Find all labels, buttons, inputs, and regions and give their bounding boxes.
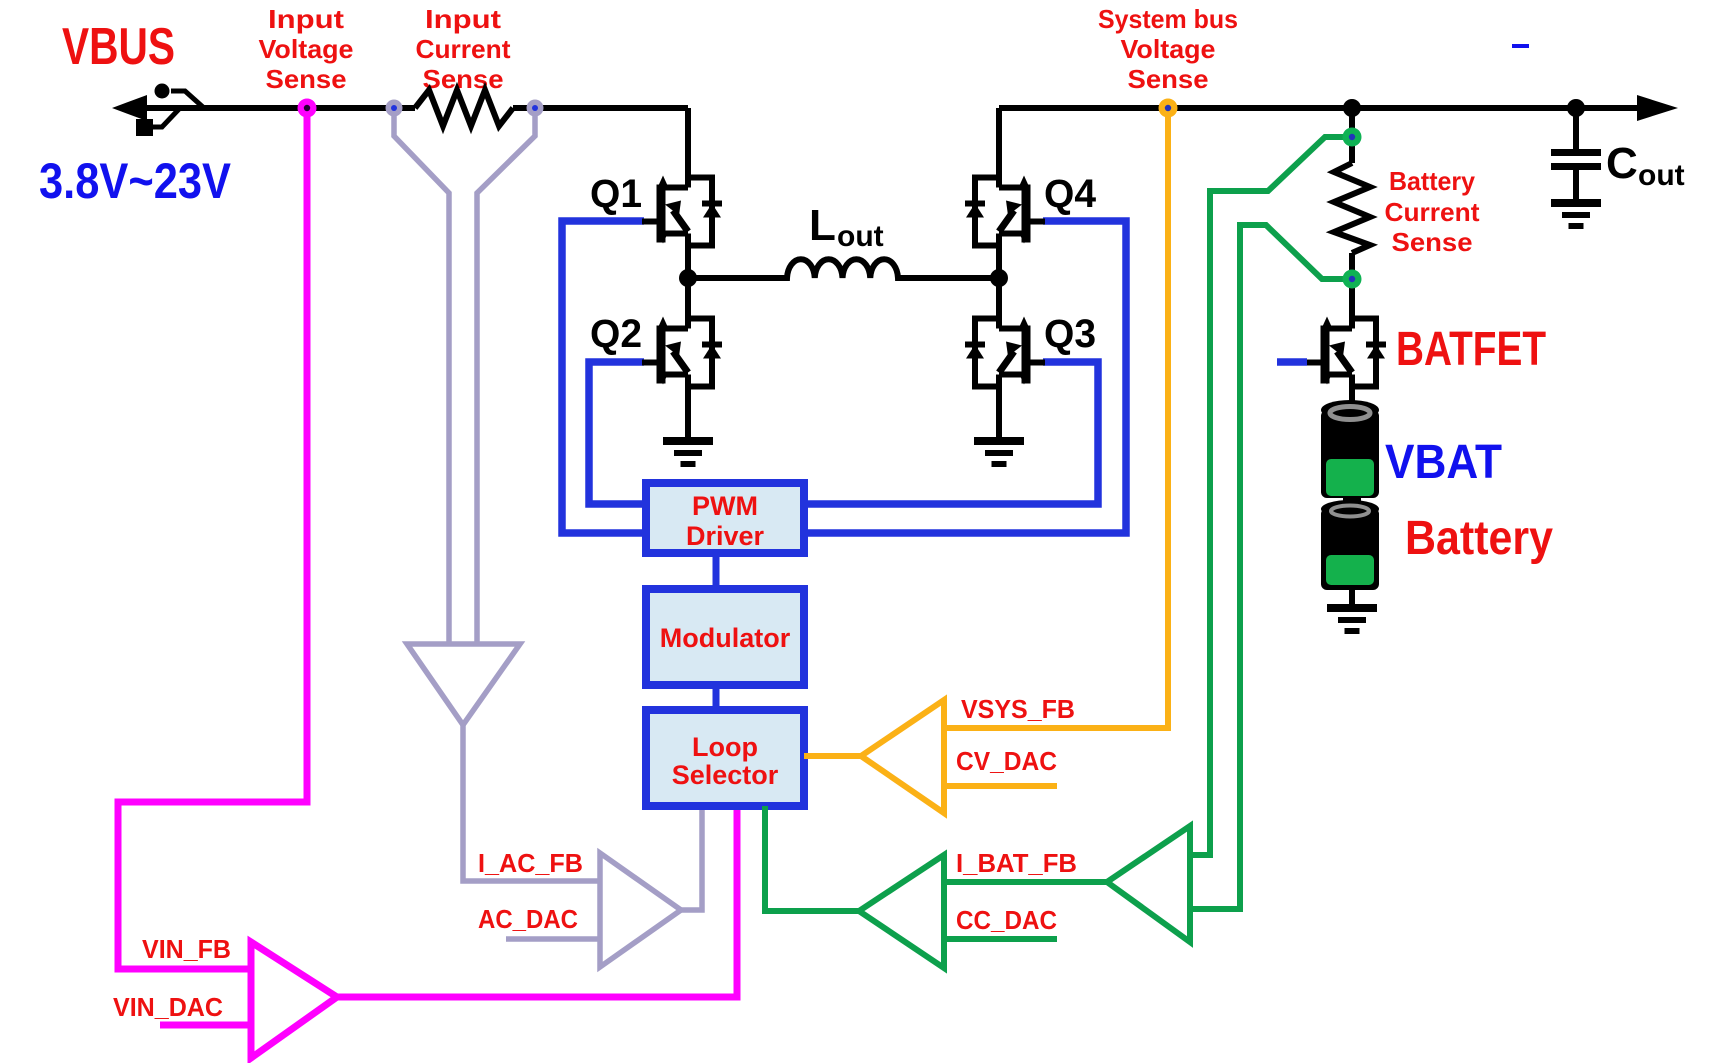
node: system bus sense (orange) bbox=[1159, 99, 1178, 118]
node: right switch node bbox=[990, 269, 1008, 287]
svg-text:VSYS_FB: VSYS_FB bbox=[961, 694, 1075, 724]
wire: Q4 drain from rail bbox=[996, 108, 1002, 173]
svg-text:I_BAT_FB: I_BAT_FB bbox=[956, 848, 1077, 878]
wire: gray amp2 output to Loop Selector bbox=[681, 806, 702, 910]
node: battery branch junction bbox=[1343, 99, 1361, 117]
svg-text:Battery: Battery bbox=[1405, 512, 1553, 565]
ground below Q3 bbox=[974, 437, 1024, 467]
svg-text:Sense: Sense bbox=[1128, 64, 1209, 94]
svg-text:L: L bbox=[809, 201, 836, 250]
svg-text:BATFET: BATFET bbox=[1396, 323, 1546, 376]
wire: battery branch from rail bbox=[1349, 108, 1355, 163]
wire: blue BATFET gate stub bbox=[1277, 358, 1307, 366]
wire: magenta VIN amp output to Loop Selector bbox=[337, 806, 737, 997]
wire: PWM Driver to Modulator bbox=[713, 553, 720, 590]
wire: AC_DAC input stub bbox=[506, 936, 600, 942]
wire: sense resistor to BATFET bbox=[1349, 253, 1355, 314]
ground below Q2 bbox=[663, 437, 713, 467]
wire: switch node to Q2 drain bbox=[685, 278, 691, 314]
wire: switch node to Q3 drain bbox=[996, 278, 1002, 314]
node: input voltage sense (magenta) bbox=[298, 99, 317, 118]
op-amp VIN (magenta) bbox=[251, 942, 337, 1058]
wire: gray current sense right lead bbox=[477, 114, 535, 644]
svg-text:C: C bbox=[1606, 139, 1638, 188]
node: Cout junction bbox=[1567, 99, 1585, 117]
box Modulator bbox=[646, 589, 804, 685]
battery cell 2 bbox=[1321, 496, 1379, 590]
transistor Q1 bbox=[642, 173, 722, 251]
USB connector icon bbox=[153, 91, 204, 127]
wire: magenta input voltage sense to VIN amp bbox=[118, 114, 307, 969]
svg-text:VIN_DAC: VIN_DAC bbox=[113, 992, 223, 1022]
svg-text:out: out bbox=[837, 220, 884, 253]
box PWM Driver bbox=[646, 483, 804, 553]
wire: Modulator to Loop Selector bbox=[713, 685, 720, 712]
wire: blue Q2 gate to PWM driver bbox=[589, 362, 646, 504]
svg-text:3.8V~23V: 3.8V~23V bbox=[39, 153, 232, 209]
wire: Q1 source to switch node bbox=[685, 250, 691, 278]
svg-text:Voltage: Voltage bbox=[1121, 34, 1216, 64]
wire: blue Q3 gate to PWM driver bbox=[804, 362, 1098, 504]
node: left switch node bbox=[679, 269, 697, 287]
ground below Cout bbox=[1551, 199, 1601, 229]
op-amp CV (orange) bbox=[861, 700, 944, 813]
svg-text:VBUS: VBUS bbox=[62, 18, 175, 76]
resistor: battery current sense bbox=[1334, 163, 1370, 253]
wire: gray current sense left lead bbox=[394, 114, 449, 644]
svg-text:Sense: Sense bbox=[423, 64, 504, 94]
wire: orange system bus sense to CV amp bbox=[944, 114, 1168, 728]
wire: Q2 source to ground bbox=[685, 391, 691, 437]
svg-text:Sense: Sense bbox=[1392, 227, 1473, 257]
resistor: input current sense bbox=[415, 90, 513, 126]
svg-text:I_AC_FB: I_AC_FB bbox=[478, 848, 583, 878]
wire: battery to ground bbox=[1349, 588, 1355, 604]
wire: green battery sense upper lead bbox=[1190, 137, 1352, 855]
wire: CV_DAC input stub bbox=[944, 783, 1057, 789]
svg-text:Q1: Q1 bbox=[590, 172, 642, 216]
wire: Q3 source to ground bbox=[996, 391, 1002, 437]
svg-text:Q3: Q3 bbox=[1044, 312, 1096, 356]
svg-text:Q4: Q4 bbox=[1044, 172, 1097, 216]
wire: blue Q4 gate to PWM driver bbox=[804, 221, 1126, 533]
wire: VIN_DAC input stub bbox=[160, 1022, 251, 1029]
wire: orange CV amp output to Loop Selector bbox=[804, 753, 861, 759]
svg-text:CV_DAC: CV_DAC bbox=[956, 746, 1057, 776]
svg-text:System bus: System bus bbox=[1098, 4, 1238, 34]
inductor Lout bbox=[688, 259, 999, 278]
svg-text:AC_DAC: AC_DAC bbox=[478, 904, 578, 934]
svg-text:Voltage: Voltage bbox=[259, 34, 354, 64]
capacitor Cout bbox=[1573, 108, 1579, 150]
svg-text:Q2: Q2 bbox=[590, 312, 642, 356]
wire: VBUS input rail (left segment) bbox=[120, 105, 688, 111]
svg-text:Current: Current bbox=[416, 34, 511, 64]
transistor BATFET bbox=[1306, 314, 1386, 392]
wire: CC_DAC input stub bbox=[944, 936, 1057, 942]
op-amp CC (green left) bbox=[859, 855, 944, 968]
svg-text:PWM: PWM bbox=[692, 491, 758, 521]
ground below battery bbox=[1327, 604, 1377, 634]
box Loop Selector bbox=[646, 710, 804, 806]
wire: green battery sense lower lead bbox=[1190, 225, 1352, 909]
node: current sense left (gray) bbox=[386, 100, 403, 117]
svg-text:Current: Current bbox=[1385, 197, 1480, 227]
node: green sense dot upper bbox=[1343, 128, 1362, 147]
svg-text:Battery: Battery bbox=[1389, 166, 1476, 196]
wire: BATFET source to battery bbox=[1349, 391, 1355, 410]
wire: Q4 source to switch node bbox=[996, 250, 1002, 278]
svg-text:CC_DAC: CC_DAC bbox=[956, 905, 1057, 935]
transistor Q2 bbox=[642, 314, 722, 392]
node: current sense right (gray) bbox=[527, 100, 544, 117]
svg-text:Sense: Sense bbox=[266, 64, 347, 94]
svg-text:Selector: Selector bbox=[672, 760, 779, 790]
VBUS arrow (left end of rail) bbox=[112, 95, 147, 121]
svg-text:Input: Input bbox=[425, 4, 501, 34]
op-amp input current sense (gray, pointing down) bbox=[407, 644, 520, 725]
svg-text:Modulator: Modulator bbox=[660, 623, 791, 653]
system bus arrow (right end of rail) bbox=[1637, 95, 1678, 121]
op-amp battery current sense (green right) bbox=[1107, 826, 1190, 942]
battery cell 1 bbox=[1321, 400, 1379, 498]
wire: green CC amp output to Loop Selector bbox=[765, 806, 859, 911]
svg-text:out: out bbox=[1638, 159, 1685, 192]
svg-text:Input: Input bbox=[268, 4, 344, 34]
op-amp I_AC (gray, pointing right) bbox=[600, 853, 681, 967]
node: green sense dot lower bbox=[1343, 270, 1362, 289]
blue dash mark top right bbox=[1512, 44, 1529, 48]
svg-text:VIN_FB: VIN_FB bbox=[142, 934, 231, 964]
svg-text:Loop: Loop bbox=[692, 732, 758, 762]
svg-text:Driver: Driver bbox=[686, 521, 765, 551]
wire: I_BAT_FB from amp to CC amp bbox=[944, 879, 1107, 885]
wire: system bus rail (right segment) bbox=[999, 105, 1660, 111]
wire: blue Q1 gate to PWM driver bbox=[562, 221, 646, 533]
svg-text:VBAT: VBAT bbox=[1385, 436, 1502, 489]
wire: Q1 drain from rail bbox=[685, 108, 691, 173]
wire: gray amp1 output to I_AC amp bbox=[463, 725, 600, 881]
transistor Q3 bbox=[965, 314, 1045, 392]
transistor Q4 bbox=[965, 173, 1045, 251]
